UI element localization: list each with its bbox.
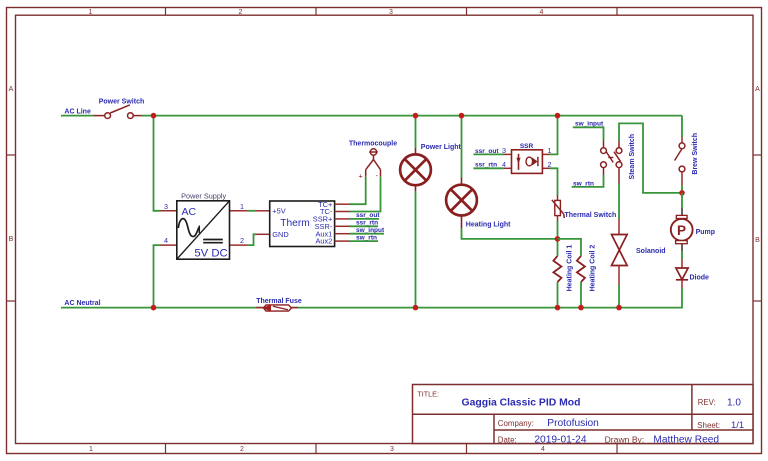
label Therm	[280, 218, 309, 229]
SSR U2 pin stubs	[504, 154, 551, 168]
svg-text:4: 4	[502, 160, 506, 169]
switch SW Power Switch	[93, 105, 141, 119]
title block TITLE:	[417, 390, 439, 399]
pin name GND	[272, 230, 288, 239]
switch Steam Switch pole 2	[614, 141, 622, 184]
thermocouple TC1	[366, 149, 381, 177]
svg-text:+5V: +5V	[272, 206, 285, 215]
net label ssr_out at therm	[356, 212, 380, 219]
svg-text:2: 2	[240, 446, 244, 453]
power supply PS1 body	[177, 201, 230, 259]
svg-text:sw_rtn: sw_rtn	[356, 234, 377, 241]
label Power Light	[421, 144, 462, 151]
therm controller U1 right pin stubs	[335, 204, 350, 241]
svg-text:1: 1	[89, 446, 93, 453]
svg-text:TITLE:: TITLE:	[417, 390, 439, 399]
net label sw_rtn at steam switch	[573, 180, 594, 187]
junction neutral / solenoid	[616, 305, 622, 311]
svg-text:Diode: Diode	[690, 275, 710, 282]
svg-text:Matthew Reed: Matthew Reed	[653, 435, 719, 446]
svg-text:3: 3	[389, 9, 393, 16]
pin name +5V	[272, 206, 285, 215]
pin number 2	[240, 236, 244, 245]
SSR pin number 4	[502, 160, 506, 169]
lamp Heating Light	[446, 178, 477, 228]
wire thermal switch to heater node	[557, 221, 559, 256]
svg-text:Solanoid: Solanoid	[636, 248, 666, 255]
junction neutral / power light	[413, 305, 419, 311]
svg-text:Thermal Switch: Thermal Switch	[565, 212, 617, 219]
wire net sw_rtn at therm	[350, 240, 378, 242]
svg-text:B: B	[9, 236, 14, 243]
label Thermal Switch	[565, 212, 617, 219]
svg-text:SSR: SSR	[520, 143, 534, 150]
title block Date:	[498, 435, 517, 444]
svg-text:3: 3	[164, 202, 168, 211]
thermocouple polarity marks	[359, 171, 379, 180]
wire +5V link power supply to therm	[247, 210, 256, 212]
label Power Supply	[181, 192, 226, 201]
fuse Thermal Fuse F1	[256, 304, 298, 311]
wire net sw_input at therm	[350, 233, 384, 235]
svg-text:Heating Coil 2: Heating Coil 2	[590, 245, 597, 292]
label Solanoid	[636, 248, 666, 255]
svg-text:ssr_out: ssr_out	[475, 148, 499, 155]
wire net ssr_out at therm	[350, 218, 379, 220]
label AC	[182, 206, 197, 218]
junction hot rail / power light	[413, 113, 419, 119]
pin name SSR+	[313, 215, 333, 224]
label Heating Coil 2	[590, 245, 597, 292]
wire power light bottom to neutral	[415, 192, 417, 308]
svg-text:Brew Switch: Brew Switch	[692, 133, 699, 175]
wire SSR pin1 riser to hot rail	[550, 116, 558, 155]
wire net sw_rtn at steam switch	[572, 175, 604, 187]
label P inside pump	[677, 223, 686, 238]
wire brew switch to pump node	[681, 185, 683, 193]
wire net sw_input at steam switch	[573, 127, 604, 140]
wire power supply pin 4 to neutral	[154, 245, 161, 308]
wire heating light bottom to heater node	[462, 228, 558, 239]
svg-text:Aux2: Aux2	[315, 237, 332, 246]
net label sw_input at therm	[356, 227, 385, 234]
resistor Heating Coil 1	[553, 256, 561, 282]
svg-text:Heating Light: Heating Light	[466, 222, 511, 229]
junction neutral / heating coil 1	[555, 305, 561, 311]
svg-text:1: 1	[89, 9, 93, 16]
label 5V DC	[194, 247, 227, 259]
svg-text:2: 2	[239, 9, 243, 16]
title date value 2019-01-24	[534, 435, 586, 446]
pin name TC-	[320, 207, 333, 216]
svg-text:REV:: REV:	[698, 398, 716, 407]
svg-text:Thermal Fuse: Thermal Fuse	[256, 298, 302, 305]
net label sw_input at steam switch	[575, 121, 604, 128]
pin name SSR-	[315, 222, 333, 231]
label Steam Switch	[629, 134, 636, 180]
switch Steam Switch pole 1	[601, 141, 614, 175]
net label ssr_rtn at SSR	[475, 162, 497, 169]
wire SSR pin2 down to thermal switch	[550, 168, 558, 195]
title drawn by value Matthew Reed	[653, 435, 719, 446]
diode D1	[676, 259, 688, 288]
svg-text:5V DC: 5V DC	[194, 247, 227, 259]
node AC Neutral label	[64, 300, 100, 307]
pin number 3	[164, 202, 168, 211]
svg-text:ssr_out: ssr_out	[356, 212, 380, 219]
thermal switch F2	[552, 195, 565, 221]
title rev value 1.0	[727, 397, 741, 408]
svg-text:AC Line: AC Line	[64, 109, 91, 116]
label Thermocouple	[349, 140, 397, 147]
net label ssr_rtn at therm	[356, 220, 378, 227]
SSR U2 body	[512, 150, 543, 174]
wire hot rail drop to power supply pin 3	[154, 116, 161, 211]
svg-text:4: 4	[540, 9, 544, 16]
junction hot rail / heating light	[459, 113, 465, 119]
title block Sheet:	[697, 421, 720, 430]
svg-text:P: P	[677, 223, 686, 238]
net label ssr_out at SSR	[475, 148, 499, 155]
therm controller U1 body	[270, 201, 335, 247]
wire net ssr_out at SSR	[473, 153, 503, 155]
SSR pin number 3	[502, 146, 506, 155]
title block outline	[413, 385, 754, 444]
svg-text:Thermocouple: Thermocouple	[349, 140, 397, 147]
solenoid L1	[612, 219, 628, 286]
junction pump node	[679, 190, 685, 196]
svg-text:AC Neutral: AC Neutral	[64, 300, 100, 307]
label Thermal Fuse	[256, 298, 302, 305]
label Heating Light	[466, 222, 511, 229]
label SSR	[520, 143, 534, 150]
title block row line 1	[413, 413, 754, 415]
svg-text:sw_rtn: sw_rtn	[573, 180, 594, 187]
pin name TC+	[318, 200, 332, 209]
switch Brew Switch	[675, 137, 685, 185]
wire TC+ to thermocouple	[350, 177, 366, 205]
power supply PS1 pins	[161, 211, 248, 245]
junction neutral / power supply	[151, 305, 157, 311]
label Pump	[696, 229, 715, 236]
node AC Line label	[64, 109, 91, 116]
svg-text:ssr_rtn: ssr_rtn	[356, 220, 378, 227]
junction hot rail / SSR	[555, 113, 561, 119]
svg-text:Heating Coil 1: Heating Coil 1	[566, 245, 573, 292]
wire pump to diode	[681, 251, 683, 259]
pin number 1	[240, 202, 244, 211]
svg-text:ssr_rtn: ssr_rtn	[475, 162, 497, 169]
svg-text:1.0: 1.0	[727, 397, 741, 408]
svg-text:AC: AC	[182, 206, 197, 218]
wire solenoid to neutral	[618, 285, 620, 308]
label Power Switch	[99, 99, 145, 106]
wire AC neutral rail	[61, 288, 682, 308]
svg-text:2019-01-24: 2019-01-24	[534, 435, 586, 446]
junction hot rail / power supply feed	[151, 113, 157, 119]
label Diode	[690, 275, 710, 282]
wire steam pole 2 bottom to solenoid	[618, 184, 620, 219]
title company value Protofusion	[547, 418, 599, 429]
wire hot rail to brew switch	[681, 116, 683, 137]
svg-text:Gaggia Classic PID Mod: Gaggia Classic PID Mod	[462, 397, 581, 408]
junction heater node	[555, 236, 561, 242]
svg-text:Pump: Pump	[696, 229, 715, 236]
wire heating coil 2 to neutral	[580, 282, 582, 308]
wire GND link power supply to therm	[247, 234, 256, 245]
motor Pump M1	[671, 208, 693, 251]
title block REV:	[698, 398, 716, 407]
svg-text:Drawn By:: Drawn By:	[605, 434, 645, 444]
svg-text:GND: GND	[272, 230, 288, 239]
lamp Power Light	[400, 148, 431, 192]
svg-text:1/1: 1/1	[731, 419, 744, 430]
label Heating Coil 1	[566, 245, 573, 292]
wire heating light top riser	[461, 116, 463, 179]
wire heating coil 1 to neutral	[557, 282, 559, 308]
wire net ssr_rtn at SSR	[473, 167, 503, 169]
title block row line 2	[494, 429, 753, 431]
wire AC line left segment	[61, 115, 93, 117]
pin name Aux2	[315, 237, 332, 246]
svg-text:+: +	[359, 171, 364, 180]
steam switch coupling dash	[608, 157, 613, 159]
wire pump node to pump	[681, 193, 683, 208]
title block Drawn By:	[605, 434, 645, 444]
wire heater node to heating coil 2	[558, 239, 582, 256]
resistor Heating Coil 2	[577, 256, 585, 282]
wire AC hot rail	[142, 115, 683, 117]
svg-text:3: 3	[502, 146, 506, 155]
svg-text:Protofusion: Protofusion	[547, 418, 599, 429]
svg-text:Therm: Therm	[280, 218, 309, 229]
label Brew Switch	[692, 133, 699, 175]
SSR pin number 1	[548, 146, 552, 155]
title block column line left	[493, 414, 495, 443]
title block Company:	[498, 419, 534, 428]
svg-text:2: 2	[240, 236, 244, 245]
svg-text:sw_input: sw_input	[575, 121, 604, 128]
svg-text:Power Light: Power Light	[421, 144, 462, 151]
net label sw_rtn at therm	[356, 234, 377, 241]
svg-text:Power Supply: Power Supply	[181, 192, 226, 201]
title block column line rev	[691, 385, 693, 431]
svg-text:Steam Switch: Steam Switch	[629, 134, 636, 180]
svg-text:1: 1	[240, 202, 244, 211]
svg-text:4: 4	[164, 236, 168, 245]
svg-text:B: B	[755, 237, 760, 244]
svg-text:Power Switch: Power Switch	[99, 99, 145, 106]
svg-text:Sheet:: Sheet:	[697, 421, 720, 430]
wire steam pole 2 top to pump node	[619, 123, 682, 192]
pin number 4	[164, 236, 168, 245]
svg-text:Company:: Company:	[498, 419, 534, 428]
SSR pin number 2	[548, 160, 552, 169]
title Gaggia Classic PID Mod	[462, 397, 581, 408]
junction neutral / heating coil 2	[578, 305, 584, 311]
svg-text:4: 4	[541, 446, 545, 453]
svg-text:3: 3	[390, 446, 394, 453]
svg-text:A: A	[9, 86, 14, 93]
wire net ssr_rtn at therm	[350, 225, 378, 227]
wire power light top riser	[415, 116, 417, 149]
svg-text:sw_input: sw_input	[356, 227, 385, 234]
svg-text:Date:: Date:	[498, 435, 517, 444]
title sheet value 1/1	[731, 419, 744, 430]
wire TC- to thermocouple	[350, 177, 381, 212]
svg-text:A: A	[755, 86, 760, 93]
therm controller U1 left pins	[256, 211, 270, 235]
pin name Aux1	[315, 229, 332, 238]
